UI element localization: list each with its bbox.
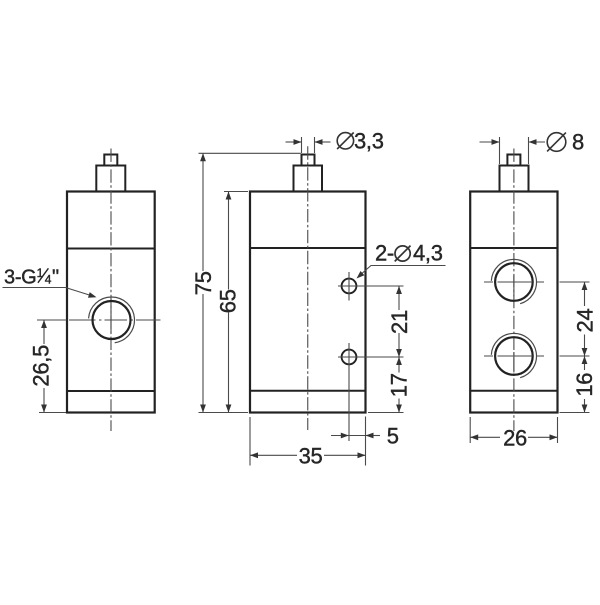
left view G1/4 port bold circle <box>93 301 131 339</box>
Ø8 dim line left part <box>480 141 500 143</box>
middle view body outline <box>250 192 366 413</box>
dim 26 right arrowhead <box>550 434 558 440</box>
middle view hole 2 (lower 4,3) <box>342 350 357 365</box>
right view port 2 bold circle <box>495 337 533 375</box>
dim 26 right extension line <box>557 417 559 443</box>
dim 17 line lower segment <box>398 399 400 413</box>
leader line for 3-G1/4 <box>3 288 95 297</box>
right view centerline long dash through port 1 <box>513 275 515 296</box>
dim 26 left extension line <box>469 417 471 443</box>
dim 16 up arrowhead <box>582 356 588 364</box>
left view nipple small step <box>104 155 117 166</box>
dim 65 up arrowhead <box>226 192 232 200</box>
Ø3,3 left-pointing arrowhead <box>315 139 323 145</box>
dim 26 line right segment <box>528 436 558 438</box>
dim 65 line lower segment <box>228 313 230 413</box>
Ø3,3 right-pointing arrowhead <box>294 139 302 145</box>
dimension 75 <box>199 153 301 412</box>
dim 26,5 line lower segment <box>43 388 45 413</box>
port 1 right extension line <box>560 281 590 283</box>
dim 65 top extension line <box>224 191 248 193</box>
dim 26 left arrowhead <box>470 434 478 440</box>
dim 16 bottom extension line <box>560 412 590 414</box>
svg-text:4,3: 4,3 <box>413 241 443 266</box>
dimension 17 <box>368 357 404 413</box>
dim 16 line lower segment <box>584 399 586 413</box>
middle view lower section line <box>250 390 366 392</box>
dimension 24 <box>560 282 590 356</box>
dim 75 down arrowhead <box>200 405 206 413</box>
svg-text:": " <box>52 266 59 288</box>
dim 26,5 down arrowhead <box>41 405 47 413</box>
left view lower section line <box>67 390 155 392</box>
svg-text:26: 26 <box>503 425 527 450</box>
dim 35 right extension line <box>365 441 367 466</box>
right view centerline long dash through port 2 <box>513 352 515 373</box>
hole 1 vertical center mark <box>348 272 350 301</box>
dim 17 line upper segment <box>398 357 400 373</box>
middle view upper section line <box>250 247 366 249</box>
dim 24 down arrowhead <box>582 348 588 356</box>
Ø3,3 diameter symbol <box>337 133 354 150</box>
Ø3,3 left extension line <box>301 137 303 153</box>
left view vertical centerline long dash through port <box>110 306 112 334</box>
left view port horizontal centerline <box>37 319 161 321</box>
dimension Ø3,3 <box>286 137 331 153</box>
dim 5 right lead line <box>366 435 381 437</box>
Ø3,3 dim line left part <box>286 141 302 143</box>
dim 21 up arrowhead <box>396 286 402 294</box>
port 2 right extension line <box>560 355 590 357</box>
2-Ø4,3 leader arrowhead <box>357 271 365 279</box>
right view port 1 bold circle <box>495 263 533 301</box>
dim 35 line right segment <box>324 454 366 456</box>
dim 5 left lead line <box>331 435 349 437</box>
left view nipple large step <box>96 166 125 192</box>
svg-text:8: 8 <box>572 129 584 154</box>
middle view nipple large step <box>294 166 323 192</box>
dimension 21 <box>398 286 400 357</box>
right view upper section line <box>470 247 557 249</box>
dim 17 down arrowhead <box>396 405 402 413</box>
Ø8 right-pointing arrowhead <box>492 139 500 145</box>
dimension Ø8 <box>480 137 546 164</box>
dim 26 line left segment <box>470 436 500 438</box>
svg-text:5: 5 <box>387 423 399 448</box>
port 1 horizontal centerline <box>484 281 544 283</box>
dim 75 line upper segment <box>202 153 204 271</box>
dim 75 line lower segment <box>202 294 204 413</box>
dim 17 up arrowhead <box>396 357 402 365</box>
svg-text:16: 16 <box>572 373 597 397</box>
right view port 2 thread thin arc <box>491 333 536 377</box>
dim 35 left extension line <box>249 417 251 466</box>
right view nipple large step <box>500 166 529 192</box>
svg-text:21: 21 <box>387 310 412 334</box>
dim 65 line upper segment <box>228 192 230 290</box>
svg-text:4: 4 <box>45 272 52 286</box>
dim 26,5 bottom extension line <box>39 412 66 414</box>
left view body outline <box>67 192 155 413</box>
dim 26,5 up arrowhead <box>41 320 47 328</box>
left view upper section line <box>67 248 155 250</box>
Ø8 left-pointing arrowhead <box>529 139 537 145</box>
left view G1/4 thread thin arc <box>89 297 135 343</box>
svg-text:75: 75 <box>191 271 216 295</box>
dim 5 left-pointing arrowhead <box>366 433 374 439</box>
dimension 5 <box>331 417 380 442</box>
svg-text:17: 17 <box>387 373 412 397</box>
dim 24 line lower segment <box>584 335 586 357</box>
svg-text:1: 1 <box>37 266 44 280</box>
dimension 16 <box>560 356 590 413</box>
Ø3,3 dim line right part <box>315 141 331 143</box>
right view vertical centerline <box>513 149 515 432</box>
left view vertical centerline <box>110 149 112 432</box>
hole 1 horizontal centerline <box>338 285 404 287</box>
port 2 horizontal centerline <box>484 355 544 357</box>
dimension 35 <box>250 417 366 466</box>
svg-text:2-: 2- <box>375 241 394 266</box>
Ø8 right extension line <box>528 137 530 164</box>
hole 2 horizontal centerline <box>338 356 404 358</box>
dim 5 middle segment <box>349 435 366 437</box>
dim 26,5 line upper segment <box>43 320 45 344</box>
dim 35 left arrowhead <box>250 452 258 458</box>
right view nipple small step <box>507 155 520 166</box>
dim 35 right arrowhead <box>358 452 366 458</box>
svg-text:26,5: 26,5 <box>28 345 53 387</box>
right view port 1 thread thin arc <box>491 259 536 303</box>
dimension 65 <box>224 192 248 413</box>
svg-text:65: 65 <box>216 289 241 313</box>
dim 65 down arrowhead <box>226 405 232 413</box>
svg-text:3-G: 3-G <box>4 266 36 288</box>
Ø8 diameter symbol <box>547 133 566 152</box>
holes vertical extension line down to 5-dim <box>348 343 350 441</box>
dim 75 top extension line <box>199 152 301 154</box>
svg-text:24: 24 <box>572 309 597 333</box>
dim 75/65 bottom extension line <box>199 412 249 414</box>
dim 24 up arrowhead <box>582 282 588 290</box>
Ø3,3 right extension line <box>314 137 316 153</box>
right view body outline <box>470 192 557 413</box>
right view lower section line <box>470 390 557 392</box>
dim 16 down arrowhead <box>582 405 588 413</box>
label 3-G1/4" <box>4 266 59 288</box>
dim 17 bottom extension line <box>368 412 404 414</box>
middle view hole 1 (upper 4,3) <box>342 279 357 294</box>
2-Ø4,3 leader underline <box>359 266 446 277</box>
2-Ø4,3 diameter symbol <box>395 246 411 262</box>
dim 5 right extension line <box>365 417 367 442</box>
dim 21 down arrowhead <box>396 349 402 357</box>
middle view nipple small step <box>302 155 315 166</box>
middle view vertical centerline <box>307 146 309 430</box>
leader arrowhead <box>88 292 97 298</box>
svg-text:35: 35 <box>299 443 323 468</box>
dim 21 line upper segment <box>398 286 400 310</box>
svg-text:3,3: 3,3 <box>354 128 384 153</box>
dim 16 line upper segment <box>584 356 586 370</box>
dimension 26 <box>470 417 557 443</box>
Ø8 left extension line <box>499 137 501 164</box>
dim 5 right-pointing arrowhead <box>341 433 349 439</box>
dim 21 line lower segment <box>398 333 400 357</box>
dim 75 up arrowhead <box>200 153 206 161</box>
dim 24 line upper segment <box>584 282 586 306</box>
dimension 26,5 <box>39 320 66 413</box>
Ø8 dim line right part <box>529 141 546 143</box>
dim 35 line left segment <box>250 454 297 456</box>
